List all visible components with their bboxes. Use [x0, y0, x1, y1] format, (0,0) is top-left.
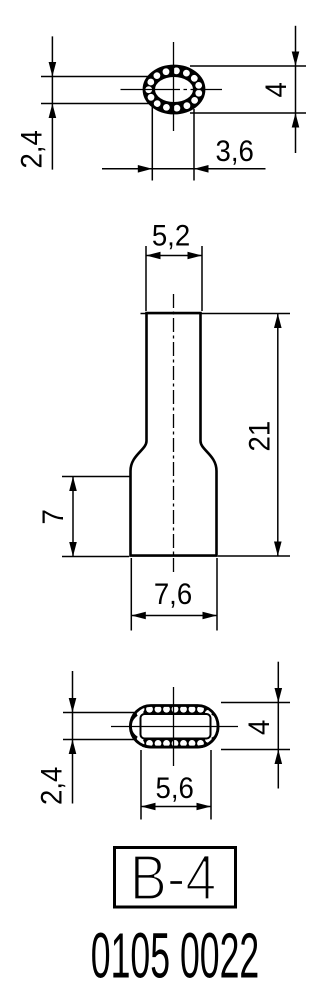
- dim 2,4 (top fig): [41, 76, 152, 78]
- top view: oval cross-section ring: [143, 65, 204, 113]
- svg-text:5,2: 5,2: [152, 219, 190, 252]
- svg-text:21: 21: [243, 421, 276, 452]
- dim 5,2: [145, 246, 147, 311]
- side view: grommet profile outline: [131, 313, 217, 556]
- top fig centerlines: [173, 42, 175, 131]
- svg-text:0105 0022: 0105 0022: [91, 919, 260, 991]
- bottom fig centerlines: [111, 726, 238, 728]
- dim 21: [141, 313, 291, 315]
- svg-text:5,6: 5,6: [156, 772, 194, 805]
- dim 2,4 (bottom fig): [63, 712, 136, 714]
- svg-text:7,6: 7,6: [154, 578, 192, 611]
- svg-text:7: 7: [37, 509, 70, 524]
- dim 7: [62, 476, 130, 478]
- svg-text:4: 4: [243, 720, 276, 735]
- dim 7,6: [130, 558, 132, 631]
- dim 4 (bottom fig): [221, 702, 290, 704]
- dim 5,6: [140, 750, 142, 820]
- middle fig centerline: [173, 294, 175, 575]
- svg-text:2,4: 2,4: [35, 767, 68, 805]
- svg-text:2,4: 2,4: [15, 130, 48, 168]
- designation box B-4: [115, 848, 236, 908]
- dim 4 (top fig): [190, 65, 306, 67]
- svg-text:3,6: 3,6: [216, 135, 254, 168]
- dim 3,6 (top fig): [151, 107, 153, 181]
- svg-text:4: 4: [260, 82, 293, 97]
- bottom view: stadium cross-section ring: [129, 705, 220, 749]
- svg-text:B-4: B-4: [130, 842, 217, 913]
